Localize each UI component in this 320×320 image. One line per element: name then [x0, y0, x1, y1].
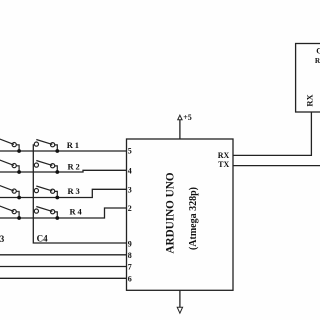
wire row R3	[0, 189, 127, 197]
svg-text:RECEIVER: RECEIVER	[315, 56, 320, 65]
svg-text:C4: C4	[37, 233, 48, 243]
wire RX to GSM	[233, 112, 311, 155]
svg-text:6: 6	[128, 274, 132, 283]
wire column C2 to pin 7	[0, 266, 127, 268]
switch S6 (row3 right)	[34, 186, 57, 198]
svg-text:9: 9	[128, 239, 132, 248]
svg-text:7: 7	[128, 263, 132, 272]
svg-text:R4: R4	[70, 206, 84, 216]
svg-text:RX: RX	[218, 151, 230, 160]
svg-text:RX: RX	[304, 94, 314, 107]
svg-text:+5: +5	[183, 113, 192, 122]
svg-text:(Atmega 328p): (Atmega 328p)	[188, 187, 199, 250]
wire column C1 to pin 6	[0, 277, 127, 279]
svg-text:ARDUINO UNO: ARDUINO UNO	[165, 172, 177, 253]
svg-text:C3: C3	[0, 234, 5, 244]
switch S4 (row2 right)	[34, 161, 57, 173]
wire row R1	[0, 150, 127, 152]
svg-text:4: 4	[128, 166, 132, 175]
svg-text:5: 5	[128, 147, 132, 156]
svg-text:2: 2	[128, 204, 132, 213]
switch S3 (row2 left)	[0, 159, 19, 172]
svg-text:3: 3	[128, 185, 132, 194]
svg-text:R1: R1	[67, 140, 81, 150]
op-amp U1 ARDUINO UNO box	[127, 139, 234, 290]
power +5 arrow	[178, 115, 182, 120]
svg-text:GSM: GSM	[316, 46, 320, 55]
svg-text:TX: TX	[218, 160, 229, 169]
switch S1 (row1 left, column C3)	[0, 138, 19, 151]
wire column C3 to pin 8	[0, 254, 127, 256]
wire TX	[233, 165, 320, 167]
svg-text:R2: R2	[68, 161, 82, 171]
wire row R2	[0, 170, 127, 172]
wire row R4	[0, 208, 127, 218]
switch S7 (row4 left)	[0, 205, 19, 218]
switch S5 (row3 left)	[0, 185, 19, 198]
svg-text:R3: R3	[68, 186, 82, 196]
switch S2 (row1 right, column C4)	[34, 140, 57, 152]
ground arrow	[177, 307, 182, 313]
wire ground	[179, 290, 181, 307]
GSM module box	[296, 44, 320, 113]
svg-text:8: 8	[128, 251, 132, 260]
switch S8 (row4 right)	[34, 207, 57, 219]
wire +5 supply	[179, 120, 181, 139]
wire column C4 to pin 9	[33, 144, 126, 243]
